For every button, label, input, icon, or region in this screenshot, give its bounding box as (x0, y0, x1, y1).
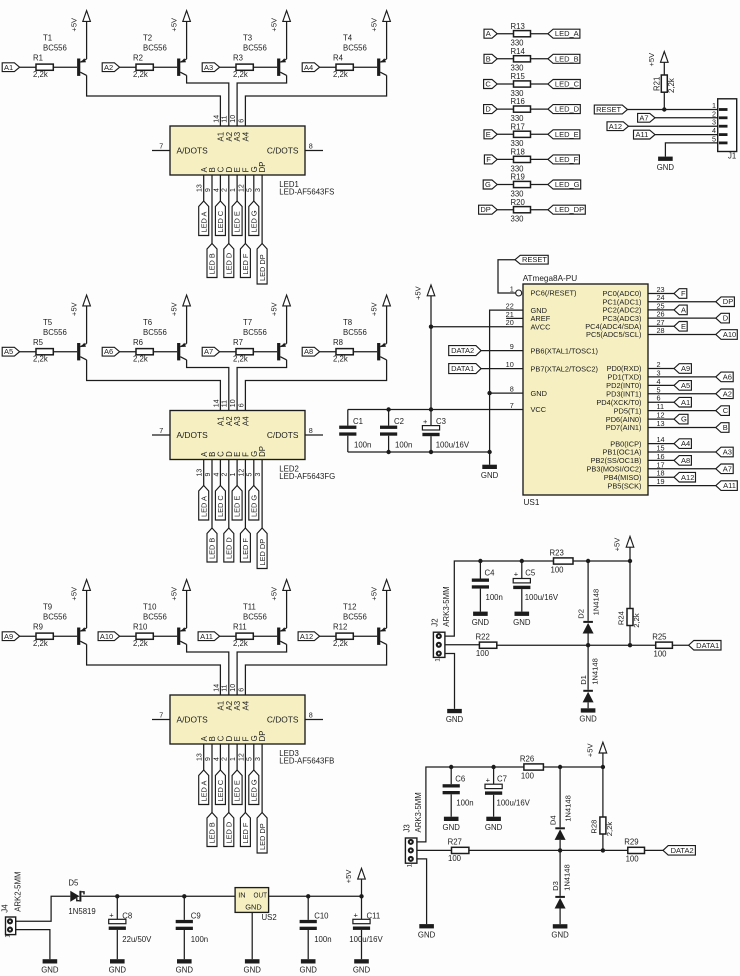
svg-text:RESET: RESET (596, 105, 621, 114)
svg-text:A4: A4 (242, 700, 251, 710)
svg-text:28: 28 (657, 326, 665, 335)
US1 pin 26 PC3(ADC3) (602, 310, 664, 323)
wire display pin 9 to net flag (211, 744, 213, 813)
svg-text:1: 1 (230, 473, 237, 477)
wire R13 to LED_A (531, 33, 548, 35)
svg-text:9: 9 (205, 188, 212, 192)
svg-text:R7: R7 (233, 338, 243, 347)
net flag LED_A (548, 29, 580, 38)
capacitor C6 100n (443, 767, 474, 817)
svg-text:4: 4 (213, 757, 220, 761)
svg-text:A11: A11 (723, 481, 736, 490)
node D flag (716, 313, 730, 323)
net flag LED_D (224, 528, 234, 562)
svg-text:19: 19 (657, 477, 665, 486)
wire A12 to J1 pin 3 (629, 125, 718, 127)
svg-text:2,2k: 2,2k (632, 613, 641, 628)
wire A3 to R3 (220, 66, 236, 68)
svg-text:T2: T2 (143, 34, 152, 43)
svg-text:LED F: LED F (241, 822, 250, 843)
wire A9 to R9 (20, 635, 36, 637)
capacitor C9 100n (176, 896, 208, 959)
junction C5/rail (520, 559, 524, 563)
US1 pin 5 PD3(INT1) (606, 385, 660, 398)
svg-text:OUT: OUT (254, 890, 268, 899)
svg-text:A2: A2 (723, 389, 732, 398)
svg-text:LED C: LED C (216, 495, 225, 517)
wire R16 to LED_D (531, 108, 548, 110)
wire US1 pin 6 to A1 (648, 401, 674, 403)
svg-text:A12: A12 (681, 473, 694, 482)
svg-text:+: + (486, 775, 491, 784)
svg-text:C: C (485, 80, 491, 89)
resistor R1 2,2k (33, 53, 53, 79)
svg-text:100: 100 (626, 855, 640, 864)
svg-text:D3: D3 (551, 881, 560, 891)
transistor T10 (BC556) (143, 603, 187, 645)
wire collector T9 to display pin 14 (87, 644, 221, 695)
svg-text:13: 13 (197, 184, 204, 192)
junction C8/rail (115, 894, 119, 898)
svg-text:R11: R11 (233, 622, 247, 631)
transistor T7 (BC556) (243, 318, 287, 360)
svg-text:BC556: BC556 (243, 44, 267, 53)
wire collector T8 to display pin 6 (245, 360, 386, 411)
svg-text:LED B: LED B (208, 538, 217, 559)
svg-text:J3: J3 (402, 824, 411, 832)
resistor R24 2,2k (pull-up) (617, 561, 642, 645)
net flag DATA1 at US1 (449, 364, 481, 374)
svg-text:9: 9 (205, 757, 212, 761)
ground symbol at C8 (109, 959, 127, 974)
node A5 flag (674, 381, 691, 391)
svg-text:2,2k: 2,2k (333, 70, 348, 79)
US1 pin 25 PC2(ADC2) (602, 301, 664, 314)
wire display pin 3 to net flag (261, 460, 263, 529)
transistor T12 (BC556) (343, 603, 387, 645)
junction D2/D1 on data line (586, 643, 590, 647)
svg-text:A11: A11 (636, 130, 649, 139)
svg-text:LED E: LED E (233, 780, 242, 801)
node F input flag (484, 155, 497, 164)
capacitor C2 100n (380, 410, 412, 453)
svg-text:R28: R28 (590, 820, 599, 834)
capacitor C1 100n (339, 410, 371, 453)
svg-text:GND: GND (353, 966, 371, 975)
svg-text:2: 2 (222, 473, 229, 477)
svg-text:GND: GND (513, 618, 531, 627)
svg-text:A: A (681, 305, 686, 314)
wire R11 to base of T11 (253, 635, 277, 637)
net flag LED_G (548, 180, 581, 189)
+5V supply arrow for T6 (169, 295, 190, 343)
net flag LED_G (249, 770, 259, 805)
junction C9/rail (182, 894, 186, 898)
+5V supply arrow for T11 (269, 580, 290, 628)
wire collector T6 to display pin 11 (187, 360, 229, 411)
svg-text:A4: A4 (242, 416, 251, 426)
svg-text:C4: C4 (485, 569, 496, 578)
svg-text:R18: R18 (511, 148, 525, 157)
net flag LED_C (215, 486, 225, 521)
net flag LED_E (548, 130, 580, 139)
capacitor C8 22u/50V (109, 896, 152, 959)
resistor R16 330 (511, 97, 531, 123)
svg-text:+5V: +5V (613, 537, 622, 552)
svg-text:DATA1: DATA1 (696, 641, 719, 650)
svg-text:2,2k: 2,2k (33, 639, 48, 648)
svg-text:8: 8 (510, 385, 514, 394)
svg-text:R16: R16 (511, 97, 525, 106)
svg-text:5: 5 (247, 188, 254, 192)
node A9 flag (674, 364, 691, 374)
svg-text:GND: GND (244, 966, 262, 975)
wire J3 pin 3 to ground (417, 859, 427, 924)
svg-text:R2: R2 (133, 53, 143, 62)
node A12 flag (607, 122, 629, 131)
svg-text:LED D: LED D (224, 822, 233, 844)
node A flag (674, 305, 687, 315)
data line to R29 (469, 849, 628, 851)
svg-text:2: 2 (222, 757, 229, 761)
svg-text:A5: A5 (4, 347, 13, 356)
node A4 input flag (302, 63, 319, 72)
node A11 input flag (198, 632, 220, 641)
wire R19 to LED_G (531, 184, 548, 186)
svg-text:7: 7 (159, 710, 163, 719)
node A7 flag (638, 113, 655, 122)
svg-text:T9: T9 (43, 603, 52, 612)
ground symbol at J1 (657, 157, 675, 172)
svg-text:LED_DP: LED_DP (555, 205, 584, 214)
svg-text:2,2k: 2,2k (33, 70, 48, 79)
svg-text:A1: A1 (681, 398, 690, 407)
wire US1 pin 13 to B (648, 427, 716, 429)
svg-text:11: 11 (222, 684, 229, 691)
diode D1 1N4148 (to GND) (579, 645, 599, 708)
svg-text:T5: T5 (43, 318, 53, 327)
svg-text:1N4148: 1N4148 (563, 795, 572, 822)
svg-text:C8: C8 (122, 912, 132, 921)
svg-text:10: 10 (230, 399, 237, 407)
svg-text:GND: GND (176, 966, 194, 975)
node E flag (674, 322, 687, 332)
wire display pin 5 to net flag (253, 460, 255, 486)
wire US1 pin 27 to E (648, 325, 674, 327)
ground symbol at C5 (513, 612, 531, 627)
svg-text:7: 7 (159, 141, 163, 150)
svg-text:GND: GND (109, 966, 127, 975)
+5V supply arrow at J2 network (613, 536, 634, 561)
svg-text:F: F (486, 155, 491, 164)
resistor R6 2,2k (133, 338, 153, 364)
connector J4 ARK2-5MM (0, 872, 22, 938)
node A10 flag (716, 330, 738, 340)
svg-text:LED F: LED F (241, 253, 250, 274)
capacitor C11 100u/16V (349, 896, 383, 959)
svg-text:BC556: BC556 (343, 328, 367, 337)
svg-text:+: + (109, 911, 114, 920)
resistor R15 330 (511, 72, 531, 98)
svg-text:C11: C11 (367, 912, 381, 921)
svg-text:2,2k: 2,2k (233, 639, 248, 648)
wire R2 to base of T2 (153, 66, 177, 68)
+5V supply arrow at US1 (414, 285, 435, 426)
diode D2 1N4148 (to +5V) (576, 561, 600, 645)
net flag LED_A (199, 770, 209, 805)
svg-text:BC556: BC556 (343, 44, 367, 53)
svg-text:A8: A8 (681, 456, 690, 465)
svg-text:PD7(AIN1): PD7(AIN1) (606, 423, 642, 432)
svg-text:+: + (423, 417, 428, 426)
svg-text:LED B: LED B (208, 253, 217, 274)
wire display pin 13 to net flag (203, 744, 205, 770)
transistor T6 (BC556) (143, 318, 187, 360)
wire display pin 2 to net flag (228, 175, 230, 244)
wire J2 pin 1 to +5V rail (445, 561, 481, 636)
net flag RESET (594, 105, 627, 114)
resistor R11 2,2k (233, 622, 253, 648)
resistor R14 330 (511, 47, 531, 73)
svg-text:LED-AF5643FS: LED-AF5643FS (279, 188, 334, 197)
svg-text:LED_G: LED_G (555, 180, 580, 189)
svg-text:5: 5 (247, 757, 254, 761)
svg-text:4: 4 (213, 188, 220, 192)
svg-text:A10: A10 (723, 330, 736, 339)
+5V supply arrow at J3 network (586, 742, 607, 767)
svg-text:GND: GND (579, 715, 597, 724)
svg-text:ARK3-5MM: ARK3-5MM (414, 792, 423, 832)
svg-text:8: 8 (309, 141, 313, 150)
svg-text:GND: GND (485, 823, 503, 832)
svg-text:1: 1 (4, 934, 11, 938)
svg-text:GND: GND (245, 903, 261, 912)
svg-text:ARK3-5MM: ARK3-5MM (442, 586, 451, 626)
svg-text:13: 13 (197, 753, 204, 761)
svg-text:10: 10 (506, 360, 514, 369)
svg-text:A: A (486, 29, 491, 38)
node A8 flag (674, 456, 691, 466)
svg-text:100u/16V: 100u/16V (349, 935, 383, 944)
+5V supply arrow for T8 (369, 295, 390, 343)
wire R23 to +5V corner (573, 560, 630, 562)
svg-text:A2: A2 (104, 63, 113, 72)
svg-text:22u/50V: 22u/50V (122, 935, 152, 944)
net flag DATA2 at US1 (449, 346, 481, 356)
svg-text:DP: DP (480, 205, 490, 214)
svg-text:T3: T3 (243, 34, 252, 43)
svg-text:2,2k: 2,2k (333, 639, 348, 648)
wire R20 to LED_DP (531, 209, 548, 211)
node A1 flag (674, 397, 691, 407)
node DP flag (716, 297, 735, 307)
supply rail (480, 560, 553, 562)
net flag LED_F (548, 155, 580, 164)
wire display pin 9 to net flag (211, 460, 213, 529)
svg-text:GND: GND (300, 966, 318, 975)
svg-text:E: E (486, 130, 491, 139)
svg-text:7: 7 (159, 426, 163, 435)
US1 pin 4 PD2(INT0) (606, 377, 660, 390)
ground symbol at D1 (579, 708, 597, 723)
svg-text:1N4148: 1N4148 (562, 864, 571, 891)
wire A7 to R7 (220, 351, 236, 353)
node A5 input flag (2, 347, 19, 356)
net flag LED_G (249, 201, 259, 236)
svg-text:GND: GND (481, 471, 499, 480)
svg-text:+5V: +5V (369, 17, 378, 32)
junction pin 8 GND (487, 391, 491, 395)
wire R9 to base of T9 (53, 635, 77, 637)
svg-text:T1: T1 (43, 34, 52, 43)
svg-text:LED G: LED G (249, 779, 258, 801)
svg-text:C/DOTS: C/DOTS (267, 430, 299, 440)
svg-text:LED DP: LED DP (258, 823, 267, 850)
svg-text:A10: A10 (100, 632, 113, 641)
svg-text:LED A: LED A (199, 211, 208, 232)
wire US1 pin 4 to A5 (648, 384, 674, 386)
svg-text:A11: A11 (200, 632, 213, 641)
wire A4 to R4 (320, 66, 336, 68)
svg-text:R19: R19 (511, 173, 525, 182)
svg-text:US2: US2 (262, 913, 277, 922)
+5V supply arrow for T5 (69, 295, 90, 343)
svg-text:LED G: LED G (249, 210, 258, 232)
wire A12 to R12 (320, 635, 336, 637)
node F flag (674, 289, 687, 299)
svg-text:GND: GND (446, 715, 464, 724)
net flag LED_G (249, 486, 259, 521)
svg-text:A1: A1 (4, 63, 13, 72)
net flag LED_C (215, 770, 225, 805)
svg-text:A/DOTS: A/DOTS (177, 714, 209, 724)
junction AVCC/+5V (429, 325, 433, 329)
node A3 input flag (202, 63, 219, 72)
svg-text:T8: T8 (343, 318, 352, 327)
US1 pin 12 PD6(AIN0) (606, 411, 665, 424)
svg-text:A6: A6 (104, 347, 113, 356)
wire R8 to base of T8 (353, 351, 377, 353)
capacitor C3 100u/16V (422, 417, 469, 452)
wire US1 pin 11 to C (648, 410, 716, 412)
pin 7 stub of LED1 (152, 141, 170, 150)
svg-text:A7: A7 (723, 464, 732, 473)
net flag RESET at US1 (515, 255, 548, 264)
wire R15 to LED_C (531, 83, 548, 85)
svg-text:PB6(XTAL1/TOSC1): PB6(XTAL1/TOSC1) (531, 346, 599, 355)
node A10 input flag (98, 632, 120, 641)
wire display pin 2 to net flag (228, 460, 230, 529)
svg-text:D: D (485, 105, 491, 114)
wire display pin 4 to net flag (219, 460, 221, 486)
svg-text:1N5819: 1N5819 (68, 907, 95, 916)
svg-text:E: E (681, 322, 686, 331)
svg-text:R12: R12 (333, 622, 347, 631)
svg-text:+5V: +5V (369, 301, 378, 316)
wire E to R17 (497, 133, 513, 135)
svg-text:LED_A: LED_A (555, 29, 579, 38)
net flag LED_DP (257, 528, 267, 569)
svg-text:PC5(ADC5/SCL): PC5(ADC5/SCL) (586, 330, 641, 339)
transistor T9 (BC556) (43, 603, 87, 645)
pin 1 inversion circle (516, 290, 522, 296)
svg-text:A6: A6 (723, 373, 732, 382)
wire A10 to R10 (120, 635, 136, 637)
supply rail (451, 766, 524, 768)
ground rail under C1-C3 (348, 451, 490, 453)
wire A2 to R2 (120, 66, 136, 68)
svg-text:LED E: LED E (233, 211, 242, 232)
svg-text:DATA1: DATA1 (451, 364, 474, 373)
svg-text:A9: A9 (4, 632, 13, 641)
ground symbol at J4 (41, 959, 59, 974)
svg-text:R24: R24 (617, 611, 626, 625)
wire F to R18 (497, 158, 513, 160)
svg-text:2,2k: 2,2k (33, 355, 48, 364)
svg-text:2,2k: 2,2k (133, 355, 148, 364)
wire R14 to LED_B (531, 58, 548, 60)
wire J4 pin 2 to ground (16, 930, 50, 960)
net flag LED_E (232, 770, 242, 805)
+5V supply arrow for T9 (69, 580, 90, 628)
svg-text:D1: D1 (579, 675, 588, 685)
pin 8 stub of LED2 (305, 426, 323, 435)
svg-text:100n: 100n (314, 935, 331, 944)
svg-text:+: + (354, 911, 359, 920)
svg-text:R3: R3 (233, 53, 243, 62)
wire display pin 3 to net flag (261, 175, 263, 244)
svg-text:J4: J4 (0, 904, 9, 913)
net flag LED_B (207, 244, 217, 278)
wire US1 pin 14 to A4 (648, 443, 674, 445)
svg-text:BC556: BC556 (343, 613, 367, 622)
svg-text:R4: R4 (333, 53, 344, 62)
node D input flag (484, 105, 498, 114)
svg-text:R15: R15 (511, 72, 526, 81)
wire display pin 3 to net flag (261, 744, 263, 813)
svg-text:C6: C6 (455, 774, 465, 783)
US1 pin 15 PB1(OC1A) (602, 444, 664, 457)
svg-text:A12: A12 (609, 122, 622, 131)
capacitor C7 100u/16V (485, 767, 531, 817)
transistor T5 (BC556) (43, 318, 87, 360)
pin 8 stub of LED3 (305, 710, 323, 719)
wire R26 to +5V corner (543, 766, 603, 768)
ground symbol at C7 (485, 817, 503, 832)
svg-text:100u/16V: 100u/16V (497, 799, 531, 808)
resistor R26 100 (rail) (520, 755, 544, 781)
node A1 input flag (2, 63, 19, 72)
svg-text:A/DOTS: A/DOTS (177, 145, 209, 155)
wire collector T2 to display pin 11 (187, 75, 229, 126)
net flag LED_C (215, 201, 225, 236)
diode D4 1N4148 (to +5V) (548, 767, 572, 850)
junction C11/+5V (359, 894, 363, 898)
junction D4/rail (558, 765, 562, 769)
wire A5 to R5 (20, 351, 36, 353)
junction C4/rail (478, 559, 482, 563)
svg-text:2,2k: 2,2k (133, 70, 148, 79)
wire R12 to base of T12 (353, 635, 377, 637)
capacitor C5 100u/16V (513, 561, 559, 612)
svg-text:DATA2: DATA2 (671, 846, 694, 855)
US1 pin 24 PC1(ADC1) (602, 293, 664, 306)
svg-text:2,2k: 2,2k (233, 70, 248, 79)
+5V supply arrow for R21 (647, 52, 668, 76)
svg-text:J2: J2 (430, 618, 439, 626)
svg-text:6: 6 (238, 403, 245, 407)
node A11 flag (716, 481, 738, 491)
